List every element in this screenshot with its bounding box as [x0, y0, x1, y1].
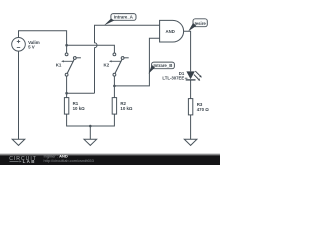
svg-text:470 Ω: 470 Ω — [197, 107, 210, 112]
svg-text:10 kΩ: 10 kΩ — [120, 106, 133, 111]
svg-text:5 V: 5 V — [28, 44, 35, 49]
svg-text:Intrare_B: Intrare_B — [153, 63, 172, 68]
svg-text:http://circuitlab.com/csndt653: http://circuitlab.com/csndt653 — [44, 158, 94, 163]
svg-text:LTL-307EE: LTL-307EE — [162, 76, 184, 81]
svg-text:Iesire: Iesire — [195, 21, 207, 26]
svg-text:K1: K1 — [56, 63, 62, 68]
svg-text:AND: AND — [166, 29, 175, 34]
svg-text:K2: K2 — [104, 63, 110, 68]
svg-text:10 kΩ: 10 kΩ — [73, 106, 86, 111]
svg-text:LAB: LAB — [23, 159, 36, 164]
svg-text:Intrare_A: Intrare_A — [114, 15, 133, 20]
